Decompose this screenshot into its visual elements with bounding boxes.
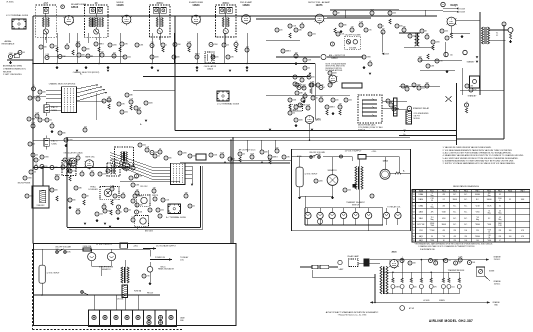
svg-text:680: 680 bbox=[169, 158, 172, 160]
svg-text:47K: 47K bbox=[521, 236, 524, 238]
svg-text:12X4: 12X4 bbox=[419, 230, 423, 232]
svg-text:3300K: 3300K bbox=[442, 224, 446, 226]
svg-text:220: 220 bbox=[499, 230, 502, 232]
svg-text:.05: .05 bbox=[302, 96, 304, 98]
svg-text:.02: .02 bbox=[138, 108, 140, 110]
svg-text:1. VALUES IN OHMS UNLESS VALU: 1. VALUES IN OHMS UNLESS VALUE IN MEGOHM… bbox=[443, 146, 492, 149]
svg-text:.1: .1 bbox=[39, 160, 40, 162]
svg-text:AT 5W: AT 5W bbox=[409, 307, 414, 310]
svg-text:1MEG: 1MEG bbox=[99, 44, 105, 46]
svg-text:100: 100 bbox=[476, 240, 479, 242]
svg-text:100: 100 bbox=[464, 230, 467, 232]
svg-text:12V 15A: 12V 15A bbox=[117, 298, 124, 301]
svg-text:220: 220 bbox=[101, 51, 104, 53]
svg-text:3.3: 3.3 bbox=[488, 193, 490, 195]
svg-text:220: 220 bbox=[336, 100, 339, 102]
svg-text:.05: .05 bbox=[233, 159, 235, 161]
svg-text:8.2: 8.2 bbox=[443, 199, 445, 201]
svg-text:.02: .02 bbox=[308, 68, 310, 70]
svg-text:PANEL INDICATOR: PANEL INDICATOR bbox=[158, 268, 175, 271]
svg-text:50: 50 bbox=[488, 237, 490, 239]
svg-text:STANDBY RELAY: STANDBY RELAY bbox=[413, 107, 430, 110]
svg-text:12BA6: 12BA6 bbox=[71, 6, 79, 9]
svg-text:4. MEASURED VALUES ARE FROM S: 4. MEASURED VALUES ARE FROM SOCKET PIN T… bbox=[443, 154, 525, 157]
svg-text:*100K: *100K bbox=[442, 212, 446, 214]
svg-text:12 VOLT INPUT: 12 VOLT INPUT bbox=[305, 174, 319, 176]
svg-text:CHANNEL SELECTOR (FRONT): CHANNEL SELECTOR (FRONT) bbox=[73, 71, 100, 74]
svg-text:POWER ON: POWER ON bbox=[155, 257, 166, 259]
svg-text:V4: V4 bbox=[413, 212, 415, 214]
svg-text:72: 72 bbox=[488, 211, 490, 213]
svg-text:.02: .02 bbox=[235, 41, 237, 43]
svg-text:680: 680 bbox=[406, 85, 409, 87]
svg-text:.005: .005 bbox=[112, 52, 115, 54]
svg-text:1MEG: 1MEG bbox=[138, 196, 144, 198]
svg-text:470: 470 bbox=[442, 194, 445, 196]
svg-text:1MEG: 1MEG bbox=[55, 174, 61, 176]
svg-text:VIBRATOR: VIBRATOR bbox=[101, 268, 111, 271]
svg-text:8.2: 8.2 bbox=[488, 218, 490, 220]
svg-text:680: 680 bbox=[87, 49, 90, 51]
svg-text:B 150V: B 150V bbox=[460, 8, 466, 10]
svg-text:*7.2K: *7.2K bbox=[487, 229, 491, 231]
svg-text:*7700K: *7700K bbox=[430, 230, 435, 232]
svg-text:A PHOTOFACT STANDARD NOTATI: A PHOTOFACT STANDARD NOTATION SCHEMATIC bbox=[326, 311, 379, 314]
svg-text:*6.2K: *6.2K bbox=[498, 225, 502, 227]
svg-text:5. ALL SWITCHES VIEWED FROM B: 5. ALL SWITCHES VIEWED FROM BOTTOM UNLES… bbox=[443, 157, 519, 160]
svg-text:U. 12 TERMINAL GUIDE: U. 12 TERMINAL GUIDE bbox=[6, 14, 29, 17]
svg-text:470: 470 bbox=[453, 236, 456, 238]
svg-text:1MEG: 1MEG bbox=[273, 157, 279, 159]
svg-text:.005: .005 bbox=[83, 126, 86, 128]
svg-text:.02: .02 bbox=[243, 154, 245, 156]
svg-text:50C5 *10K: 50C5 *10K bbox=[417, 224, 424, 226]
svg-text:.001: .001 bbox=[313, 34, 316, 36]
svg-text:PIN 6: PIN 6 bbox=[487, 191, 491, 193]
svg-text:90: 90 bbox=[431, 236, 433, 238]
svg-text:12AD6: 12AD6 bbox=[116, 4, 124, 7]
svg-text:220: 220 bbox=[216, 57, 219, 59]
svg-text:3.2: 3.2 bbox=[496, 35, 498, 37]
svg-text:.05: .05 bbox=[34, 172, 36, 174]
svg-text:.02: .02 bbox=[458, 263, 460, 265]
svg-text:6AQ5: 6AQ5 bbox=[450, 3, 458, 7]
svg-text:.05: .05 bbox=[33, 144, 35, 146]
svg-text:220: 220 bbox=[45, 166, 48, 168]
svg-text:Meg: Meg bbox=[476, 219, 479, 221]
svg-text:2E26: 2E26 bbox=[391, 252, 397, 254]
svg-text:SWITCH: SWITCH bbox=[352, 204, 360, 206]
svg-text:RESISTANCE READINGS: RESISTANCE READINGS bbox=[453, 185, 479, 188]
svg-text:STANDBY: STANDBY bbox=[468, 95, 478, 98]
svg-text:.005: .005 bbox=[445, 31, 448, 33]
svg-text:.005: .005 bbox=[393, 13, 396, 15]
svg-text:*3.3: *3.3 bbox=[442, 236, 445, 238]
svg-text:680: 680 bbox=[63, 133, 66, 135]
svg-text:220: 220 bbox=[108, 96, 111, 98]
svg-text:100K: 100K bbox=[521, 199, 525, 201]
svg-text:AF OUTPUT 50C5: AF OUTPUT 50C5 bbox=[239, 149, 257, 152]
svg-text:3.3: 3.3 bbox=[499, 211, 501, 213]
svg-text:100: 100 bbox=[509, 230, 512, 232]
svg-text:MIXER: MIXER bbox=[117, 2, 124, 4]
svg-text:220: 220 bbox=[499, 236, 502, 238]
svg-text:RESISTANCE: RESISTANCE bbox=[2, 43, 15, 46]
svg-text:ON-OFF VOLUME: ON-OFF VOLUME bbox=[345, 34, 361, 36]
svg-text:220: 220 bbox=[476, 230, 479, 232]
svg-text:455KC: 455KC bbox=[156, 3, 163, 5]
svg-text:7. SUPPLY VOLTAGE MAINTAINED: 7. SUPPLY VOLTAGE MAINTAINED AT 12.6V VA… bbox=[443, 162, 516, 165]
svg-text:.001: .001 bbox=[161, 210, 164, 212]
svg-text:PIN 1: PIN 1 bbox=[430, 191, 434, 193]
svg-text:.01: .01 bbox=[81, 170, 83, 172]
svg-text:.05: .05 bbox=[227, 45, 229, 47]
svg-text:100: 100 bbox=[450, 54, 453, 56]
svg-text:V2: V2 bbox=[413, 199, 415, 201]
svg-text:8.2: 8.2 bbox=[509, 199, 511, 201]
svg-text:B+: B+ bbox=[140, 124, 142, 126]
svg-text:.1: .1 bbox=[401, 257, 402, 259]
svg-text:*22.2K: *22.2K bbox=[487, 205, 492, 207]
svg-text:220: 220 bbox=[464, 236, 467, 238]
svg-text:PIN 3: PIN 3 bbox=[453, 191, 457, 193]
svg-text:Meg: Meg bbox=[488, 195, 491, 197]
svg-text:680: 680 bbox=[73, 200, 76, 202]
svg-text:OSCILLATOR 12AQ5: OSCILLATOR 12AQ5 bbox=[63, 151, 83, 154]
svg-text:12 VOLT SUPPLY: 12 VOLT SUPPLY bbox=[345, 151, 362, 153]
svg-text:.1: .1 bbox=[33, 85, 34, 87]
svg-text:220: 220 bbox=[276, 147, 279, 149]
svg-text:*68000: *68000 bbox=[475, 236, 480, 238]
svg-text:12AT6: 12AT6 bbox=[316, 4, 323, 7]
svg-text:Meg: Meg bbox=[498, 213, 501, 215]
svg-text:DC VOLTAGE SUPPLY: DC VOLTAGE SUPPLY bbox=[156, 245, 176, 248]
svg-text:RF OSC: RF OSC bbox=[140, 186, 148, 188]
svg-text:Meg: Meg bbox=[431, 195, 434, 197]
svg-text:*7000: *7000 bbox=[430, 240, 434, 242]
svg-text:NO SIGNAL APPLIED.: NO SIGNAL APPLIED. bbox=[326, 69, 344, 72]
svg-text:XTAL MIC: XTAL MIC bbox=[36, 204, 45, 207]
svg-text:.01: .01 bbox=[301, 22, 303, 24]
svg-text:ON-AIR LAMP: ON-AIR LAMP bbox=[347, 255, 359, 258]
svg-text:DOUBLER: DOUBLER bbox=[88, 189, 98, 191]
svg-text:.01: .01 bbox=[158, 156, 160, 158]
svg-text:.001: .001 bbox=[302, 84, 305, 86]
svg-text:PRI 12V: PRI 12V bbox=[147, 293, 154, 295]
svg-text:3.3: 3.3 bbox=[499, 217, 501, 219]
svg-text:.05: .05 bbox=[23, 52, 25, 54]
svg-text:B+: B+ bbox=[404, 134, 406, 136]
svg-text:GREEN: GREEN bbox=[439, 300, 446, 302]
svg-text:.005: .005 bbox=[131, 164, 134, 166]
svg-text:.02: .02 bbox=[55, 46, 57, 48]
svg-text:90: 90 bbox=[443, 240, 445, 242]
svg-text:*12.2K: *12.2K bbox=[475, 205, 480, 207]
svg-text:*2700: *2700 bbox=[475, 212, 479, 214]
svg-text:1MEG: 1MEG bbox=[286, 51, 292, 53]
svg-text:RF AMP: RF AMP bbox=[111, 159, 118, 162]
svg-text:.01: .01 bbox=[304, 92, 306, 94]
svg-text:DETECTOR - AF AMP: DETECTOR - AF AMP bbox=[308, 1, 330, 4]
svg-text:270: 270 bbox=[136, 189, 139, 191]
svg-text:7.2K: 7.2K bbox=[488, 235, 491, 237]
svg-text:680: 680 bbox=[303, 105, 306, 107]
svg-text:270: 270 bbox=[369, 30, 372, 32]
svg-text:220: 220 bbox=[280, 30, 283, 32]
svg-text:.005: .005 bbox=[348, 190, 351, 192]
svg-text:47K: 47K bbox=[431, 212, 434, 214]
svg-text:STANDBY: STANDBY bbox=[467, 61, 476, 64]
svg-text:PIN 5: PIN 5 bbox=[476, 191, 480, 193]
svg-text:I.F. 455KC: I.F. 455KC bbox=[6, 2, 15, 4]
svg-text:A. 7 TERMINAL GUIDE: A. 7 TERMINAL GUIDE bbox=[166, 216, 187, 219]
svg-text:220: 220 bbox=[140, 205, 143, 207]
svg-text:12AD6: 12AD6 bbox=[207, 68, 214, 71]
svg-text:12 VOLT SUPPLY: 12 VOLT SUPPLY bbox=[96, 244, 113, 246]
svg-text:7.26MC: 7.26MC bbox=[51, 144, 58, 146]
svg-text:4700K: 4700K bbox=[430, 223, 434, 225]
svg-text:680: 680 bbox=[426, 33, 429, 35]
svg-text:1MEG: 1MEG bbox=[195, 53, 201, 55]
svg-text:V8: V8 bbox=[413, 236, 415, 238]
svg-text:.05: .05 bbox=[369, 60, 371, 62]
svg-text:100: 100 bbox=[509, 236, 512, 238]
svg-text:.005: .005 bbox=[422, 88, 425, 90]
svg-text:Meg: Meg bbox=[488, 213, 491, 215]
svg-text:220: 220 bbox=[414, 286, 417, 288]
svg-text:.02: .02 bbox=[129, 210, 131, 212]
svg-text:FUSE 15A: FUSE 15A bbox=[83, 245, 92, 248]
svg-text:TRANSMIT/RECEIVE: TRANSMIT/RECEIVE bbox=[448, 269, 465, 272]
svg-text:ANTENNA (NO WIRE): ANTENNA (NO WIRE) bbox=[3, 65, 22, 68]
svg-text:270: 270 bbox=[151, 42, 154, 44]
svg-text:ON-OFF VOLUME: ON-OFF VOLUME bbox=[55, 246, 71, 248]
svg-text:*700K: *700K bbox=[430, 225, 434, 227]
svg-text:MICROPHONE: MICROPHONE bbox=[18, 183, 31, 185]
svg-text:SWITCH: SWITCH bbox=[358, 129, 366, 131]
svg-text:RF AMPLIFIER: RF AMPLIFIER bbox=[71, 3, 86, 6]
svg-text:V6: V6 bbox=[413, 224, 415, 226]
svg-text:*100K: *100K bbox=[487, 224, 491, 226]
svg-text:*38000: *38000 bbox=[475, 224, 480, 226]
svg-text:470: 470 bbox=[442, 205, 445, 207]
svg-text:3K: 3K bbox=[431, 200, 433, 202]
svg-text:270: 270 bbox=[147, 276, 150, 278]
svg-text:COIL: COIL bbox=[180, 260, 184, 262]
svg-text:.02: .02 bbox=[36, 155, 38, 157]
svg-text:CHANNEL SELECTOR (FRONT): CHANNEL SELECTOR (FRONT) bbox=[49, 83, 76, 86]
svg-text:K: K bbox=[499, 200, 500, 202]
svg-text:1MEG: 1MEG bbox=[330, 107, 336, 109]
svg-text:ANT: ANT bbox=[44, 2, 49, 5]
svg-text:RECEIVE: RECEIVE bbox=[3, 71, 12, 73]
svg-text:PIN 7: PIN 7 bbox=[498, 191, 502, 193]
svg-text:.02: .02 bbox=[35, 164, 37, 166]
svg-text:*3.3: *3.3 bbox=[431, 217, 434, 219]
svg-text:47K: 47K bbox=[521, 230, 524, 232]
svg-text:2200: 2200 bbox=[498, 198, 502, 200]
svg-text:.001: .001 bbox=[125, 112, 128, 114]
svg-text:.05: .05 bbox=[448, 260, 450, 262]
svg-text:FUSE 8A: FUSE 8A bbox=[134, 290, 142, 293]
svg-text:.05: .05 bbox=[122, 192, 124, 194]
svg-text:680: 680 bbox=[344, 25, 347, 27]
svg-text:TUBE: TUBE bbox=[419, 191, 423, 193]
svg-text:6AT6: 6AT6 bbox=[315, 119, 321, 122]
svg-text:7.2K: 7.2K bbox=[431, 198, 434, 200]
svg-text:7.26MC: 7.26MC bbox=[51, 110, 58, 112]
svg-text:V7: V7 bbox=[413, 230, 415, 232]
svg-text:100000: 100000 bbox=[475, 194, 480, 196]
svg-text:1MEG: 1MEG bbox=[300, 76, 306, 78]
svg-text:270: 270 bbox=[440, 61, 443, 63]
svg-text:100: 100 bbox=[464, 240, 467, 242]
svg-text:.001: .001 bbox=[245, 46, 248, 48]
svg-text:220: 220 bbox=[312, 77, 315, 79]
svg-text:3. ALL CONTROLS SET FOR NORMA: 3. ALL CONTROLS SET FOR NORMAL OPERATION… bbox=[443, 152, 512, 155]
svg-text:.005: .005 bbox=[100, 214, 103, 216]
svg-text:12X4: 12X4 bbox=[382, 160, 388, 163]
svg-text:.001: .001 bbox=[61, 163, 64, 165]
svg-text:47: 47 bbox=[499, 240, 501, 242]
svg-text:B 250V: B 250V bbox=[460, 12, 466, 14]
svg-text:OSCILLATOR: OSCILLATOR bbox=[204, 65, 217, 68]
svg-text:12BA6: 12BA6 bbox=[242, 4, 250, 7]
svg-text:12 VOLT INPUT: 12 VOLT INPUT bbox=[47, 273, 61, 275]
svg-text:Meg: Meg bbox=[498, 219, 501, 221]
svg-text:680: 680 bbox=[318, 154, 321, 156]
svg-text:NOISE: NOISE bbox=[489, 271, 495, 273]
svg-text:ANT 250V: ANT 250V bbox=[145, 230, 154, 233]
svg-text:3: 3 bbox=[432, 193, 433, 195]
svg-text:2 XMIT 1 RECEIVING: 2 XMIT 1 RECEIVING bbox=[3, 74, 22, 76]
svg-text:Meg: Meg bbox=[431, 219, 434, 221]
svg-text:500K: 500K bbox=[498, 223, 502, 225]
svg-text:8.2: 8.2 bbox=[499, 194, 501, 196]
svg-text:.1: .1 bbox=[466, 101, 467, 103]
svg-text:.001: .001 bbox=[128, 57, 131, 59]
svg-text:AF AMPL: AF AMPL bbox=[290, 109, 298, 112]
svg-text:3: 3 bbox=[432, 204, 433, 206]
svg-text:+CELL: +CELL bbox=[371, 151, 376, 153]
svg-text:TO RELAY COIL: TO RELAY COIL bbox=[387, 206, 400, 209]
svg-text:.01: .01 bbox=[413, 36, 415, 38]
svg-text:.1: .1 bbox=[121, 212, 122, 214]
svg-text:ANL + DETECTOR: ANL + DETECTOR bbox=[329, 54, 346, 57]
svg-text:U. 12 TERMINAL GUIDE: U. 12 TERMINAL GUIDE bbox=[217, 103, 240, 106]
svg-text:220: 220 bbox=[453, 230, 456, 232]
svg-text:IF AMPLIFIER: IF AMPLIFIER bbox=[189, 1, 203, 4]
svg-text:.001: .001 bbox=[349, 100, 352, 102]
svg-text:Meg: Meg bbox=[431, 206, 434, 208]
svg-text:250VDC: 250VDC bbox=[494, 259, 501, 261]
svg-text:V9: V9 bbox=[413, 240, 415, 242]
svg-text:AIRLINE MODEL GHJ-387: AIRLINE MODEL GHJ-387 bbox=[429, 319, 473, 323]
svg-text:4700: 4700 bbox=[442, 218, 446, 220]
svg-text:MODEL: MODEL bbox=[414, 118, 420, 120]
svg-text:2ND IF AMP: 2ND IF AMP bbox=[240, 1, 253, 4]
svg-text:.02: .02 bbox=[293, 113, 295, 115]
svg-text:6. NUMBERS ASSIGNED TO SWITCH: 6. NUMBERS ASSIGNED TO SWITCHES MAY NOT … bbox=[443, 160, 515, 163]
svg-text:470: 470 bbox=[442, 230, 445, 232]
svg-text:*3.3: *3.3 bbox=[476, 217, 479, 219]
svg-text:.1: .1 bbox=[166, 45, 167, 47]
svg-text:455KC: 455KC bbox=[222, 3, 229, 5]
svg-text:XMTR OSC: XMTR OSC bbox=[85, 157, 95, 159]
svg-text:V1: V1 bbox=[413, 194, 415, 196]
svg-text:PIN 9: PIN 9 bbox=[521, 191, 525, 193]
svg-text:PIN 4: PIN 4 bbox=[464, 191, 468, 193]
svg-text:V5: V5 bbox=[413, 218, 415, 220]
svg-text:100VDC: 100VDC bbox=[494, 283, 501, 285]
svg-text:PIN 8: PIN 8 bbox=[508, 191, 512, 193]
svg-text:.1: .1 bbox=[324, 87, 325, 89]
svg-text:©Howard W. Sams & Co., Inc. 1: ©Howard W. Sams & Co., Inc. 1963 bbox=[338, 313, 367, 316]
svg-text:+CELL: +CELL bbox=[133, 245, 138, 247]
svg-text:3300K: 3300K bbox=[453, 199, 457, 201]
svg-text:VOLUME: VOLUME bbox=[349, 48, 357, 50]
svg-text:V3: V3 bbox=[413, 205, 415, 207]
svg-text:*1000: *1000 bbox=[487, 240, 491, 242]
svg-text:45: 45 bbox=[488, 231, 490, 233]
svg-text:.01: .01 bbox=[193, 206, 195, 208]
svg-text:8.2: 8.2 bbox=[499, 205, 501, 207]
svg-text:XTAL #2: XTAL #2 bbox=[51, 106, 57, 109]
svg-text:100000: 100000 bbox=[487, 199, 492, 201]
svg-text:PIN 2: PIN 2 bbox=[442, 191, 446, 193]
svg-text:1 HARNESS W/ANT(OUT): 1 HARNESS W/ANT(OUT) bbox=[3, 67, 26, 70]
svg-text:270: 270 bbox=[77, 154, 80, 156]
svg-text:220: 220 bbox=[453, 240, 456, 242]
svg-text:12BA6: 12BA6 bbox=[192, 4, 200, 7]
svg-text:.001: .001 bbox=[451, 286, 454, 288]
svg-text:2. VOLTAGE MEASUREMENTS TAKEN: 2. VOLTAGE MEASUREMENTS TAKEN WITH VACUU… bbox=[443, 149, 513, 152]
